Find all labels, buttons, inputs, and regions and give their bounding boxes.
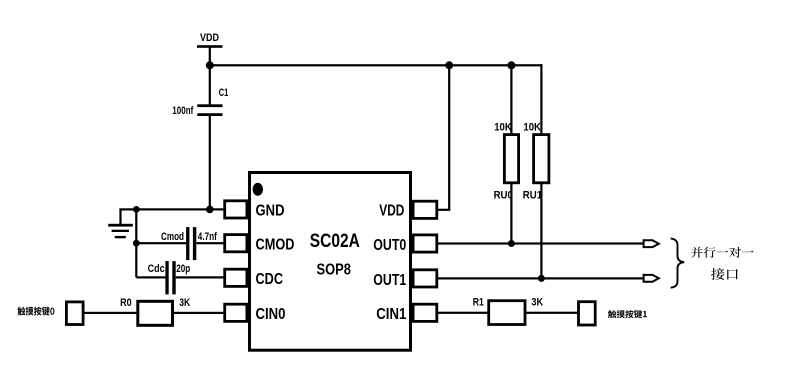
svg-text:CIN1: CIN1 <box>376 306 406 323</box>
pin 1 marker dot <box>253 183 263 196</box>
pin CDC (left pin 3) <box>225 269 247 286</box>
svg-text:20p: 20p <box>176 263 190 275</box>
wire top rail corner to RU1 <box>540 64 542 133</box>
resistor R1 3K <box>473 297 543 325</box>
pin CIN0 (left pin 4) <box>225 304 247 321</box>
svg-text:CIN0: CIN0 <box>256 306 286 323</box>
wire OUT1 net <box>438 277 643 279</box>
svg-text:100nf: 100nf <box>172 105 193 117</box>
wire OUT0 net <box>438 242 643 244</box>
pin label OUT0 <box>373 237 406 254</box>
svg-text:RU1: RU1 <box>523 190 542 202</box>
wire VDD pin to top rail <box>438 65 450 211</box>
pin OUT0 (right pin 7) <box>413 235 437 252</box>
label parallel one-to-one <box>691 247 754 258</box>
node OUT0 RU0 junction <box>508 240 515 247</box>
connector touch key 0 pad <box>66 302 83 325</box>
wire Cmod to CMOD pin <box>196 242 224 244</box>
label interface <box>711 268 738 280</box>
ground <box>108 209 133 238</box>
wire VDD to C1 <box>209 47 211 106</box>
pin CIN1 (right pin 5) <box>413 304 437 321</box>
brace parallel interface <box>671 238 685 287</box>
wire top rail to RU0 <box>510 65 512 133</box>
wire CIN1 pin to R1 <box>438 312 488 314</box>
wire RU1 to OUT1 net <box>540 184 542 278</box>
resistor RU0 10K <box>494 121 519 201</box>
svg-text:SC02A: SC02A <box>310 231 360 252</box>
node C1 bottom junction <box>206 206 214 214</box>
node VDD net junction at C1 top <box>206 61 214 69</box>
svg-text:R0: R0 <box>120 297 132 309</box>
svg-text:3K: 3K <box>531 297 543 309</box>
power symbol VDD <box>197 32 223 48</box>
capacitor Cmod 4.7nf <box>161 227 217 260</box>
wire ground net down <box>135 209 137 277</box>
pin CMOD (left pin 2) <box>225 235 247 252</box>
svg-text:VDD: VDD <box>200 32 219 44</box>
connector OUT1 output <box>644 275 659 282</box>
svg-text:Cdc: Cdc <box>148 263 165 275</box>
wire C1 to GND pin rail <box>209 116 211 211</box>
wire GND pin to ground <box>119 208 224 210</box>
wire R1 to touch key 1 <box>526 312 578 314</box>
svg-text:RU0: RU0 <box>494 190 513 202</box>
pin label CIN1 <box>376 306 406 323</box>
svg-text:GND: GND <box>256 202 285 219</box>
op-amp U1 SC02A body <box>250 173 411 351</box>
svg-text:OUT0: OUT0 <box>373 237 406 254</box>
svg-text:C1: C1 <box>219 87 229 99</box>
pin label VDD <box>379 202 404 219</box>
wire RU0 to OUT0 net <box>510 184 512 244</box>
svg-text:CMOD: CMOD <box>256 236 295 253</box>
svg-text:10K: 10K <box>523 121 541 133</box>
pin GND (left pin 1) <box>225 201 247 218</box>
node CMOD branch junction <box>133 240 140 247</box>
svg-text:SOP8: SOP8 <box>316 262 351 279</box>
pin label CMOD <box>256 236 295 253</box>
svg-text:Cmod: Cmod <box>161 231 184 243</box>
wire key0 to R0 <box>85 312 138 314</box>
resistor RU1 10K <box>523 121 549 201</box>
svg-text:VDD: VDD <box>379 202 404 219</box>
pin OUT1 (right pin 6) <box>413 270 437 287</box>
capacitor Cdc 20p <box>148 261 191 294</box>
connector touch key 1 pad <box>579 302 596 325</box>
svg-text:CDC: CDC <box>256 271 284 288</box>
wire VDD top rail <box>210 64 543 66</box>
wire R0 to CIN0 pin <box>174 312 225 314</box>
chip package SOP8 <box>316 262 351 279</box>
pin label CIN0 <box>256 306 286 323</box>
pin VDD (right pin 8) <box>413 201 437 218</box>
pin label OUT1 <box>373 272 406 289</box>
wire Cdc to CDC pin <box>176 276 224 278</box>
node VDD rail junction RU0 <box>445 61 453 69</box>
node ground net junction <box>133 206 140 213</box>
wire to Cmod left plate <box>136 242 186 244</box>
chip part number SC02A <box>310 231 360 252</box>
wire to Cdc left plate <box>136 276 166 278</box>
touch key 0 label <box>17 307 54 316</box>
node top rail junction at RU0 <box>507 61 515 69</box>
capacitor C1 <box>172 87 228 117</box>
svg-text:R1: R1 <box>473 297 484 309</box>
touch key 1 label <box>608 310 647 318</box>
svg-text:3K: 3K <box>179 297 190 309</box>
node OUT1 RU1 junction <box>538 275 545 282</box>
svg-text:10K: 10K <box>494 121 512 133</box>
pin label GND <box>256 202 285 219</box>
connector OUT0 output <box>644 240 659 247</box>
resistor R0 3K <box>120 297 190 325</box>
svg-text:OUT1: OUT1 <box>373 272 406 289</box>
svg-text:4.7nf: 4.7nf <box>198 231 217 243</box>
pin label CDC <box>256 271 284 288</box>
